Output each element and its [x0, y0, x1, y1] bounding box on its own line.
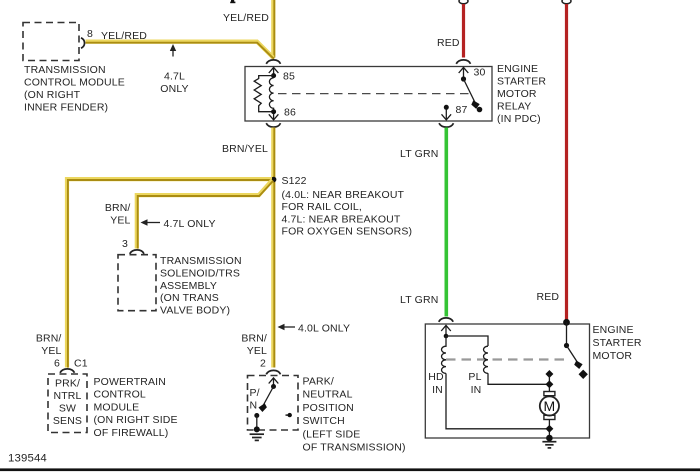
PN switch blade: [262, 387, 274, 409]
svg-text:RED: RED: [537, 291, 560, 303]
svg-text:85: 85: [283, 71, 295, 83]
svg-text:TRANSMISSION: TRANSMISSION: [24, 64, 106, 76]
pin 86 connector cup: [266, 123, 280, 127]
HD coil: [442, 336, 447, 373]
svg-text:30: 30: [474, 67, 486, 79]
red wire 1 top connector ellipse: [459, 0, 468, 4]
svg-text:TRANSMISSION: TRANSMISSION: [160, 255, 242, 267]
pin 30 connector arch: [456, 60, 470, 64]
pin 85 connector arch: [266, 60, 280, 64]
svg-text:BRN/YEL: BRN/YEL: [222, 143, 268, 155]
svg-text:(LEFT SIDE: (LEFT SIDE: [303, 428, 361, 440]
PN switch contact node: [254, 413, 259, 418]
PN switch pivot: [271, 384, 276, 389]
svg-text:FOR RAIL COIL,: FOR RAIL COIL,: [282, 201, 362, 213]
svg-text:INNER FENDER): INNER FENDER): [24, 102, 108, 114]
starter node A: [444, 334, 449, 339]
wire RED to relay pin 30: [462, 4, 465, 58]
svg-text:NEUTRAL: NEUTRAL: [303, 389, 353, 401]
wire: YEL/RED horizontal from TCM pin 8: [86, 42, 274, 58]
pin 85 arrow up: [273, 68, 275, 76]
ground node: [254, 426, 260, 432]
wire S122 branch to solenoid pin 3: [137, 180, 272, 249]
motor branch node 1: [545, 370, 553, 378]
red wire 2 top connector ellipse: [562, 0, 571, 4]
svg-text:MODULE: MODULE: [94, 401, 140, 413]
svg-text:YEL/RED: YEL/RED: [101, 30, 147, 42]
svg-text:NTRL: NTRL: [53, 390, 81, 402]
starter switch node on box edge: [563, 319, 570, 326]
svg-text:CONTROL MODULE: CONTROL MODULE: [24, 77, 125, 89]
relay: engine starter motor relay box: [245, 67, 492, 122]
svg-text:RED: RED: [437, 37, 460, 49]
svg-text:OF TRANSMISSION): OF TRANSMISSION): [303, 442, 406, 454]
svg-text:BRN/: BRN/: [105, 202, 131, 214]
svg-text:VALVE BODY): VALVE BODY): [160, 305, 230, 317]
svg-text:YEL: YEL: [110, 215, 130, 227]
node 87: [444, 105, 449, 110]
svg-text:MOTOR: MOTOR: [497, 88, 537, 100]
svg-text:POSITION: POSITION: [303, 402, 354, 414]
svg-text:CONTROL: CONTROL: [94, 389, 146, 401]
relay coil: [269, 78, 273, 110]
svg-text:IN: IN: [471, 384, 482, 396]
svg-text:LT GRN: LT GRN: [400, 148, 438, 160]
svg-text:ASSEMBLY: ASSEMBLY: [160, 280, 217, 292]
svg-text:PL: PL: [468, 371, 481, 383]
starter switch wire: [566, 322, 568, 345]
wire to ground: [256, 416, 258, 429]
wire RED to starter motor: [565, 4, 568, 321]
node 85: [271, 73, 276, 78]
wire LT GRN pin 87 to starter: [444, 128, 448, 317]
starter entry arrow up: [445, 326, 447, 336]
svg-text:2: 2: [260, 358, 266, 370]
pin 87 arrow down: [445, 110, 447, 120]
svg-text:C1: C1: [74, 358, 88, 370]
svg-text:8: 8: [87, 28, 93, 40]
pin 6 connector arch: [60, 369, 75, 373]
svg-text:SW: SW: [59, 403, 76, 415]
relay internal dashed link: [278, 93, 471, 95]
svg-text:PARK/: PARK/: [303, 376, 334, 388]
svg-text:139544: 139544: [8, 453, 47, 465]
ground symbol: [250, 433, 264, 435]
engine starter motor box: [425, 324, 589, 438]
transmission control module dashed box: [23, 23, 79, 61]
svg-text:STARTER: STARTER: [593, 337, 642, 349]
PN switch contact dot (right): [288, 413, 292, 417]
motor M: [544, 392, 555, 396]
pin 87 connector cup: [439, 123, 454, 127]
svg-text:(IN PDC): (IN PDC): [497, 113, 541, 125]
transmission solenoid dashed box: [118, 255, 156, 311]
svg-text:S122: S122: [282, 175, 307, 187]
svg-text:P/: P/: [250, 387, 260, 399]
svg-text:(4.0L: NEAR BREAKOUT: (4.0L: NEAR BREAKOUT: [282, 189, 405, 201]
wire S122 left branch to PCM pin 6: [67, 179, 272, 367]
svg-text:86: 86: [284, 107, 296, 119]
svg-text:ENGINE: ENGINE: [593, 324, 634, 336]
motor bottom node: [545, 425, 553, 433]
starter switch blade: [567, 346, 580, 366]
svg-text:RELAY: RELAY: [497, 101, 531, 113]
svg-text:SOLENOID/TRS: SOLENOID/TRS: [160, 267, 240, 279]
svg-text:(ON RIGHT SIDE: (ON RIGHT SIDE: [94, 414, 178, 426]
starter ground node: [546, 435, 553, 442]
svg-text:YEL: YEL: [41, 345, 61, 357]
relay switch pivot: [461, 76, 466, 81]
svg-text:3: 3: [122, 238, 128, 250]
starter internal dashed link: [446, 358, 570, 360]
svg-text:6: 6: [54, 358, 60, 370]
bottom rule: [0, 468, 700, 471]
svg-text:HD: HD: [428, 371, 444, 383]
cropped title glyph at top: [231, 0, 234, 2]
powertrain control module dashed box: [48, 374, 87, 433]
wire node A to PL coil: [446, 336, 488, 346]
svg-text:4.0L ONLY: 4.0L ONLY: [298, 323, 350, 335]
motor branch node 2: [545, 380, 553, 388]
starter ground symbol: [542, 441, 556, 443]
svg-text:4.7L ONLY: 4.7L ONLY: [164, 218, 216, 230]
relay switch blade: [464, 79, 477, 106]
park/neutral switch dashed box: [248, 376, 299, 431]
svg-text:POWERTRAIN: POWERTRAIN: [94, 376, 166, 388]
starter switch contact: [579, 370, 588, 379]
pin 8 connector ): [81, 38, 85, 48]
pin 86 arrow down: [273, 114, 275, 119]
svg-text:SENS: SENS: [53, 415, 82, 427]
annotation arrow 4.7L ONLY (solenoid): [144, 222, 160, 224]
starter switch pivot: [564, 343, 569, 348]
svg-text:ENGINE: ENGINE: [497, 63, 538, 75]
svg-text:ONLY: ONLY: [160, 83, 188, 95]
svg-text:BRN/: BRN/: [36, 333, 62, 345]
wire BRN/YEL relay to S122 to pin 2: [271, 128, 275, 368]
svg-text:OF FIREWALL): OF FIREWALL): [94, 427, 169, 439]
svg-text:YEL/RED: YEL/RED: [223, 12, 269, 24]
node 86: [271, 109, 276, 114]
pin 3 connector arch: [130, 250, 144, 254]
svg-text:(ON TRANS: (ON TRANS: [160, 292, 219, 304]
svg-text:MOTOR: MOTOR: [593, 350, 633, 362]
svg-text:SWITCH: SWITCH: [303, 415, 345, 427]
svg-text:87: 87: [456, 104, 468, 116]
relay coil resistor: [254, 76, 273, 112]
svg-text:LT GRN: LT GRN: [400, 294, 438, 306]
svg-text:N: N: [250, 400, 258, 412]
wire: YEL/RED vertical from top to relay pin 85: [271, 0, 275, 58]
svg-text:M: M: [543, 398, 555, 414]
wire HD coil to motor bottom: [446, 373, 549, 428]
relay switch contact: [477, 107, 483, 113]
PN switch arrow up: [273, 379, 275, 387]
PL coil: [484, 346, 489, 373]
node S122: [271, 177, 277, 183]
pin 30 arrow up: [463, 68, 465, 79]
svg-text:IN: IN: [432, 384, 443, 396]
svg-text:4.7L: NEAR BREAKOUT: 4.7L: NEAR BREAKOUT: [282, 213, 401, 225]
svg-text:YEL: YEL: [247, 345, 267, 357]
svg-text:4.7L: 4.7L: [164, 71, 185, 83]
pin 2 connector arch: [266, 370, 280, 374]
svg-text:STARTER: STARTER: [497, 76, 546, 88]
svg-text:BRN/: BRN/: [241, 333, 267, 345]
svg-text:(ON RIGHT: (ON RIGHT: [24, 89, 81, 101]
annotation arrow 4.7L ONLY (top): [172, 47, 174, 57]
starter green entry connector arch: [439, 318, 454, 322]
wire PL coil to motor node: [488, 373, 549, 384]
svg-text:PRK/: PRK/: [55, 378, 80, 390]
svg-text:FOR OXYGEN SENSORS): FOR OXYGEN SENSORS): [282, 226, 413, 238]
annotation arrow 4.0L ONLY: [281, 326, 295, 328]
